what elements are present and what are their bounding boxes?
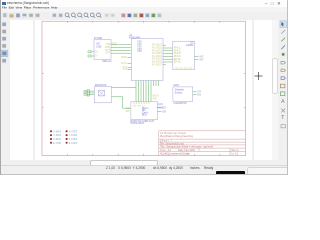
- svg-text:SENSE1 SENSE2: SENSE1 SENSE2: [175, 67, 194, 69]
- global label X1 pin 2: [84, 92, 87, 94]
- svg-text:D-: D-: [95, 54, 98, 57]
- wire X1 pin 1: [87, 90, 95, 92]
- global label RX (left of U1): [88, 55, 94, 57]
- svg-text:RESONATOR: RESONATOR: [95, 82, 106, 86]
- schematic canvas: [10, 20, 278, 160]
- title block: [159, 130, 246, 155]
- svg-text:XT2: XT2: [123, 68, 128, 71]
- title bar: [0, 0, 288, 7]
- svg-text:AVCC: AVCC: [121, 62, 128, 65]
- svg-text:PA2 (ADC2): PA2 (ADC2): [152, 49, 162, 52]
- page edge right: [252, 20, 254, 160]
- testpoint dot X-MIN: [50, 130, 52, 132]
- wire X1-U5: [111, 96, 131, 107]
- svg-text:Y-STEP: Y-STEP: [69, 134, 78, 137]
- svg-text:KiCad E.D.A. eeschema 4.0.2-st: KiCad E.D.A. eeschema 4.0.2-stable: [160, 151, 191, 155]
- svg-text:PA0 (ADC0): PA0 (ADC0): [152, 43, 162, 46]
- svg-text:GND: GND: [197, 93, 201, 96]
- component X1 resonator block (left-mid): [94, 82, 111, 102]
- pin stub U6 right 1: [193, 90, 197, 92]
- horizontal scrollbar: [10, 160, 278, 166]
- component CON1 Micro-SD (center-bottom): [126, 101, 158, 119]
- svg-text:Z-MIN: Z-MIN: [53, 138, 61, 141]
- IC U1 FT232RL (USB interface): [94, 35, 112, 62]
- svg-text:WP: WP: [126, 110, 130, 113]
- svg-text:RESET: RESET: [112, 42, 118, 45]
- pin stub U2 right bottom: [163, 63, 166, 65]
- pin stub U3 right OUT1: [195, 55, 199, 57]
- svg-text:Slot: Slot: [142, 112, 147, 116]
- pin stub U2 bottom 8: [153, 80, 155, 86]
- testpoint dot Z-MIN: [50, 137, 52, 139]
- svg-text:RepRapLtd Engineering: RepRapLtd Engineering: [160, 133, 193, 137]
- svg-text:Y-MOT: Y-MOT: [199, 58, 204, 61]
- svg-text:PA3 (ADC3): PA3 (ADC3): [152, 52, 162, 55]
- svg-text:AREF: AREF: [121, 56, 128, 59]
- svg-text:Id: 1/1: Id: 1/1: [232, 151, 240, 155]
- pin stub U5 right WP: [157, 110, 161, 112]
- wire U2 bottom pin 7 to U5: [150, 80, 152, 101]
- testpoint dot E-STEP: [66, 141, 68, 143]
- vertical scrollbar: [272, 20, 278, 160]
- svg-text:A4982: A4982: [186, 43, 194, 47]
- pin stub U2 bottom 9: [155, 80, 157, 86]
- testpoint dot Y-STEP: [66, 134, 68, 136]
- svg-text:X-STEP: X-STEP: [69, 130, 78, 133]
- svg-text:Z-STEP: Z-STEP: [69, 138, 78, 141]
- IC U3 driver (right): [173, 40, 195, 69]
- wire U2 bottom pin 5 to U5: [145, 80, 147, 101]
- svg-text:Rev: A: Rev: A: [232, 148, 239, 152]
- pin stub U2 left AREF: [128, 56, 132, 58]
- svg-text:T: T: [281, 114, 285, 120]
- wire X1-bus: [111, 86, 136, 88]
- svg-text:SCK: SCK: [153, 97, 158, 100]
- wire RTS U1-U2: [111, 49, 131, 51]
- svg-text:Y-MIN: Y-MIN: [53, 134, 61, 137]
- svg-text:USB: USB: [96, 44, 102, 48]
- wire U2-U3 pin 3: [163, 52, 173, 54]
- pin stub U2 left XT2: [128, 68, 132, 70]
- wire U2-U3 pin 6: [163, 61, 173, 63]
- wire U2 bottom pin 1 to U5: [135, 80, 137, 101]
- wire U2-U3 pin 1: [163, 47, 173, 49]
- svg-text:AUX1: AUX1: [158, 102, 163, 105]
- testpoint dot E-TMP: [50, 141, 52, 143]
- pin stub U6 right 2: [193, 93, 197, 95]
- pin stub U3 right OUT2: [195, 58, 199, 60]
- pin stub U5 right CD: [157, 106, 161, 108]
- main toolbar: [0, 12, 288, 21]
- svg-text:E-TMP: E-TMP: [53, 141, 61, 144]
- pin stub U2 right top: [163, 44, 166, 46]
- svg-text:DTR: DTR: [105, 51, 110, 54]
- svg-text:HIROSE DM3AT: HIROSE DM3AT: [130, 122, 144, 125]
- page edge left: [33, 20, 35, 160]
- testpoint dot X-STEP: [66, 130, 68, 132]
- svg-text:PB4: PB4: [137, 50, 142, 53]
- global label X1 pin 1: [84, 90, 87, 92]
- svg-text:ATMEGA644: ATMEGA644: [129, 35, 140, 39]
- svg-text:PA6 (ADC6): PA6 (ADC6): [152, 60, 162, 63]
- wire X1 pin 3: [87, 93, 95, 95]
- wire TXD U1-U2: [111, 43, 131, 45]
- sheet frame border: [42, 21, 246, 155]
- IC U2 ATMEGA644 (MCU, center): [123, 32, 163, 80]
- testpoint dot Y-MIN: [50, 134, 52, 136]
- svg-text:USB-mini: USB-mini: [102, 59, 112, 63]
- svg-text:EN2: EN2: [174, 60, 182, 63]
- wire RXD U1-U2: [111, 46, 131, 48]
- svg-text:PA5 (ADC5): PA5 (ADC5): [152, 57, 162, 60]
- status bar: [0, 165, 288, 176]
- wire U2 bottom pin 3 to U5: [140, 80, 142, 101]
- wire X1 pin 2: [87, 91, 95, 93]
- svg-text:FT232RL: FT232RL: [94, 35, 103, 39]
- pin stub U2 bottom 10: [158, 80, 160, 86]
- wire U2 bottom pin 4 to U5: [143, 80, 145, 101]
- testpoint dot Z-STEP: [66, 137, 68, 139]
- svg-text:AUX2: AUX2: [158, 106, 163, 109]
- global label TX (left of U1): [88, 50, 94, 52]
- global label X1 pin 3: [84, 93, 87, 95]
- menu bar: [0, 7, 288, 12]
- wire U2 bottom pin 6 to U5: [148, 80, 150, 101]
- svg-text:SDWP: SDWP: [162, 110, 166, 113]
- svg-text:Endstop: Endstop: [175, 90, 183, 94]
- svg-text:A: A: [281, 99, 285, 105]
- svg-text:E-STEP: E-STEP: [69, 141, 78, 144]
- svg-text:X-MIN: X-MIN: [53, 130, 61, 133]
- connector J1 body: [87, 89, 89, 95]
- svg-text:PA4 (ADC4): PA4 (ADC4): [152, 54, 162, 57]
- svg-text:Size: A4: Size: A4: [160, 148, 172, 152]
- wire DTR U1-U2: [111, 52, 131, 54]
- wire U2-U3 pin 4: [163, 55, 173, 57]
- pin stub U2 left XT1: [128, 66, 132, 68]
- wire U2 bottom pin 2 to U5: [138, 80, 140, 101]
- cursor crosshair: [255, 72, 263, 80]
- svg-text:PA1 (ADC1): PA1 (ADC1): [152, 46, 162, 49]
- wire U2-U3 pin 2: [163, 49, 173, 51]
- svg-text:SW1: SW1: [173, 82, 179, 86]
- wire U2-U3 pin 5: [163, 58, 173, 60]
- svg-text:X-ENDSTOP: X-ENDSTOP: [173, 100, 187, 104]
- svg-text:Date: 9 jun 2016: Date: 9 jun 2016: [178, 148, 196, 152]
- component U6 switch block (right-mid): [173, 82, 193, 100]
- pin stub U2 left AVCC: [128, 62, 132, 64]
- svg-text:PA7 (ADC7): PA7 (ADC7): [152, 63, 162, 66]
